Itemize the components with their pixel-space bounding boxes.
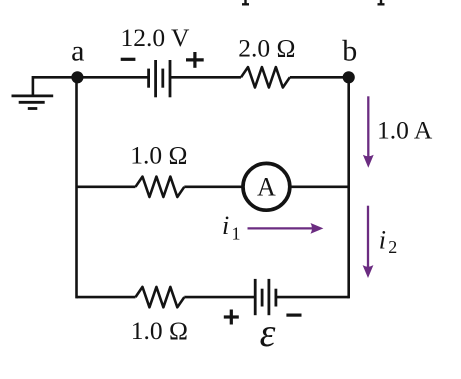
- resistor R3 1.0 ohm zigzag: [136, 287, 185, 307]
- cropped text descender fragment left: [242, 0, 249, 4]
- ammeter A circle: [243, 163, 290, 210]
- node b: [343, 71, 355, 83]
- battery V1 minus sign: [121, 58, 136, 61]
- wire middle: ammeter to right: [290, 186, 349, 189]
- svg-text:i: i: [379, 226, 386, 255]
- battery EMF plates: [255, 279, 276, 315]
- ground wire stub: [33, 77, 78, 95]
- battery EMF plus sign: [224, 310, 239, 325]
- battery V1 plus sign: [186, 52, 204, 68]
- wire left vertical: [75, 77, 78, 298]
- wire middle: resistor R2 to ammeter: [184, 186, 243, 189]
- cropped text descender fragment right: [378, 0, 385, 4]
- svg-text:a: a: [71, 35, 84, 68]
- svg-text:ε: ε: [260, 310, 276, 355]
- wire right vertical: [347, 77, 350, 298]
- wire bottom: battery EMF to right: [276, 296, 349, 299]
- battery V1 12.0 V plates: [149, 60, 170, 97]
- resistor R1 2.0 ohm zigzag: [241, 67, 290, 87]
- svg-text:2.0 Ω: 2.0 Ω: [238, 34, 295, 63]
- wire bottom: left to resistor R3: [77, 296, 136, 299]
- wire top: node a to battery: [77, 76, 148, 79]
- svg-text:i: i: [222, 211, 229, 240]
- svg-text:A: A: [257, 173, 276, 202]
- wire bottom: resistor R3 to battery EMF: [184, 296, 255, 299]
- ground: [12, 96, 54, 109]
- svg-text:b: b: [342, 35, 357, 68]
- current arrow i2: [363, 206, 374, 278]
- battery EMF minus sign: [286, 314, 301, 317]
- svg-text:1.0 Ω: 1.0 Ω: [130, 140, 187, 169]
- svg-text:1.0 Ω: 1.0 Ω: [131, 316, 188, 345]
- current arrow i1: [248, 223, 324, 234]
- svg-text:1: 1: [232, 224, 241, 244]
- svg-text:12.0 V: 12.0 V: [121, 23, 191, 52]
- svg-text:1.0 A: 1.0 A: [377, 115, 433, 144]
- resistor R2 1.0 ohm zigzag: [136, 177, 185, 197]
- node a: [71, 71, 83, 83]
- wire top: battery to resistor R1: [170, 76, 241, 79]
- current arrow 1.0 A: [363, 96, 374, 167]
- svg-text:2: 2: [388, 237, 397, 257]
- wire middle: left to resistor R2: [77, 186, 136, 189]
- wire top: resistor R1 to node b: [290, 76, 349, 79]
